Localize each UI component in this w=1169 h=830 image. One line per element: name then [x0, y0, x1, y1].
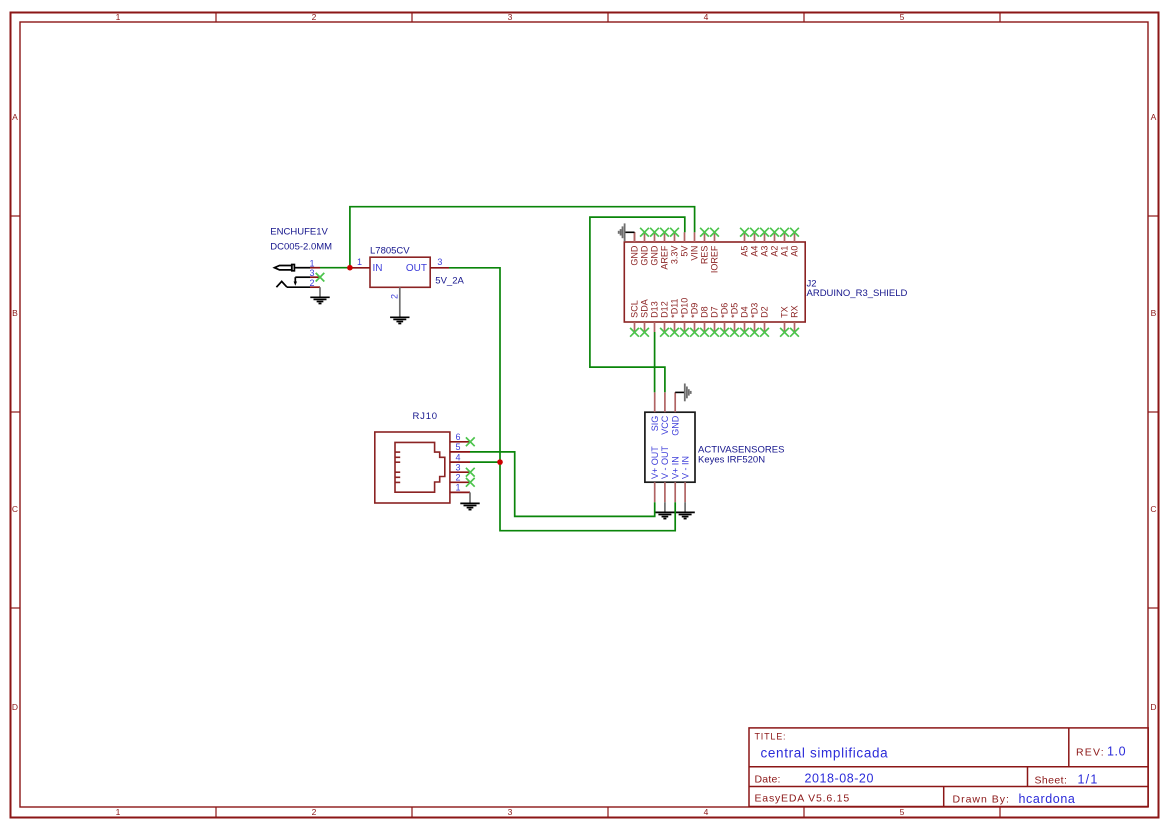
ground flag at J2 GND pin [619, 223, 635, 242]
J2 top pin AREF [660, 228, 670, 270]
svg-text:central simplificada: central simplificada [761, 746, 889, 761]
svg-text:RX: RX [790, 305, 800, 318]
wire RJ10 pin4 to junction [470, 461, 500, 463]
svg-text:D2: D2 [760, 306, 770, 318]
svg-text:A5: A5 [740, 246, 750, 257]
svg-text:hcardona: hcardona [1019, 792, 1076, 806]
svg-text:A: A [12, 112, 18, 122]
svg-text:1: 1 [116, 807, 121, 817]
svg-text:1: 1 [455, 483, 460, 493]
svg-text:AREF: AREF [660, 245, 670, 270]
U2 top pin GND [670, 392, 680, 435]
RJ10 pin 3 [450, 463, 475, 477]
svg-text:*D9: *D9 [690, 303, 700, 318]
P1 pin 3 no-connect [309, 268, 324, 282]
J2 top pin A0 [790, 228, 800, 257]
svg-text:IN: IN [373, 263, 383, 274]
J2 top pin A2 [770, 228, 780, 257]
ground at RJ10 pin 1 [460, 492, 479, 509]
svg-text:OUT: OUT [406, 263, 427, 274]
label J2 ARDUINO_R3_SHIELD [807, 279, 908, 300]
svg-text:D8: D8 [700, 306, 710, 318]
svg-text:2: 2 [309, 278, 314, 288]
svg-text:2: 2 [390, 294, 400, 299]
J2 bottom pin *D11 [670, 298, 680, 336]
svg-text:D: D [1150, 702, 1156, 712]
svg-text:5: 5 [900, 12, 905, 22]
J2 top pin VIN [690, 232, 700, 260]
svg-text:5: 5 [455, 442, 460, 452]
svg-text:3: 3 [309, 268, 314, 278]
J2 bottom pin *D6 [720, 303, 730, 337]
J2 bottom pin SDA [640, 299, 650, 336]
svg-text:*D6: *D6 [720, 303, 730, 318]
svg-text:IOREF: IOREF [710, 245, 720, 273]
svg-text:V+ IN: V+ IN [670, 456, 680, 479]
svg-text:B: B [12, 308, 18, 318]
J2 bottom pin D12 [660, 301, 670, 336]
svg-text:L7805CV: L7805CV [370, 246, 410, 257]
J2 bottom pin D2 [760, 306, 770, 336]
svg-text:A2: A2 [770, 246, 780, 257]
junction at RJ10 pin4 net [497, 459, 503, 465]
svg-text:VCC: VCC [660, 415, 670, 435]
RJ10 pin 2 [450, 473, 475, 487]
svg-text:1: 1 [309, 259, 314, 269]
ground at U1 pin 2 [390, 316, 409, 324]
J2 top pin GND [650, 228, 660, 266]
svg-text:REV:: REV: [1076, 747, 1105, 759]
U2 bottom pin V - OUT [660, 445, 670, 502]
svg-text:Drawn By:: Drawn By: [953, 794, 1010, 806]
J2 top pin RES [700, 228, 710, 264]
svg-text:SDA: SDA [640, 299, 650, 318]
svg-text:4: 4 [704, 12, 709, 22]
svg-text:2: 2 [455, 473, 460, 483]
U1 pin 1 IN [351, 257, 370, 268]
svg-text:GND: GND [640, 245, 650, 266]
svg-text:2018-08-20: 2018-08-20 [805, 772, 874, 786]
J2 top pin 5V [680, 232, 690, 256]
wire J2 5V to U2 VCC [590, 217, 685, 392]
ground at U2 V - OUT pin [655, 502, 674, 518]
U2 top pin SIG [650, 392, 660, 431]
svg-text:4: 4 [704, 807, 709, 817]
svg-text:TX: TX [780, 306, 790, 318]
svg-text:A3: A3 [760, 246, 770, 257]
ground flag at U2 GND pin [675, 384, 691, 402]
arduino shield J2 body [624, 242, 805, 322]
U1 pin 2 [390, 287, 400, 316]
svg-text:D: D [12, 702, 18, 712]
svg-text:D12: D12 [660, 301, 670, 318]
svg-text:GND: GND [650, 245, 660, 266]
J2 top pin A1 [780, 228, 790, 257]
J2 top pin A4 [750, 228, 760, 257]
title block [749, 728, 1148, 807]
J2 bottom pin RX [790, 305, 800, 336]
svg-text:RES: RES [700, 246, 710, 265]
svg-text:A: A [1151, 112, 1157, 122]
svg-text:A4: A4 [750, 246, 760, 257]
RJ10 pin 6 [450, 432, 475, 446]
svg-text:B: B [1151, 308, 1157, 318]
svg-text:C: C [12, 504, 18, 514]
svg-text:1.0: 1.0 [1107, 745, 1126, 759]
J2 bottom pin *D9 [690, 303, 700, 337]
svg-text:C: C [1150, 504, 1156, 514]
J2 top pin GND [640, 228, 650, 266]
svg-text:1: 1 [357, 257, 362, 267]
svg-text:2: 2 [312, 12, 317, 22]
U2 top pin VCC [660, 392, 670, 434]
svg-text:RJ10: RJ10 [413, 411, 438, 422]
J2 bottom pin D4 [740, 306, 750, 336]
J2 top pin IOREF [710, 228, 720, 273]
svg-text:D4: D4 [740, 306, 750, 318]
P1 pin 2 [309, 278, 320, 288]
svg-text:6: 6 [455, 432, 460, 442]
RJ10 pin 5 [450, 442, 470, 452]
svg-text:V+ OUT: V+ OUT [650, 446, 660, 479]
svg-text:1/1: 1/1 [1078, 773, 1099, 787]
J2 top pin 3.3V [670, 228, 680, 264]
J2 top pin A3 [760, 228, 770, 257]
svg-text:DC005-2.0MM: DC005-2.0MM [270, 241, 332, 252]
U2 bottom pin V+ IN [670, 456, 680, 502]
svg-text:SCL: SCL [630, 300, 640, 318]
svg-text:*D11: *D11 [670, 298, 680, 317]
svg-text:4: 4 [455, 452, 460, 462]
module U2 ACTIVASENSORES Keyes IRF520N body [645, 412, 695, 482]
J2 bottom pin D8 [700, 306, 710, 336]
svg-text:*D10: *D10 [680, 298, 690, 318]
U2 bottom pin V - IN [680, 456, 690, 502]
svg-text:SIG: SIG [650, 416, 660, 432]
regulator U1 L7805CV body [370, 257, 430, 287]
svg-text:D7: D7 [710, 306, 720, 318]
svg-text:5: 5 [900, 807, 905, 817]
J2 bottom pin *D5 [730, 303, 740, 337]
svg-text:D13: D13 [650, 301, 660, 318]
svg-text:2: 2 [312, 807, 317, 817]
J2 bottom pin *D10 [680, 298, 690, 337]
svg-text:1: 1 [116, 12, 121, 22]
ground at U2 V - IN pin [675, 502, 694, 518]
svg-text:3: 3 [508, 12, 513, 22]
J2 bottom pin D7 [710, 306, 720, 336]
svg-text:*D5: *D5 [730, 303, 740, 318]
connector P1 ENCHUFE1V DC005-2.0MM barrel jack body [275, 265, 311, 288]
junction at P1 pin1 net [347, 265, 353, 271]
U2 bottom pin V+ OUT [650, 446, 660, 502]
wire junction up over to J2 VIN [350, 207, 695, 268]
J2 bottom pin TX [780, 306, 790, 336]
connector RJ10 body [375, 432, 450, 503]
wire J2 D13 to U2 SIG [654, 332, 656, 392]
svg-text:V - OUT: V - OUT [660, 445, 670, 479]
svg-text:5V_2A: 5V_2A [435, 275, 464, 286]
J2 bottom pin *D3 [750, 303, 760, 337]
RJ10 pin 4 [450, 452, 470, 462]
wire RJ10 pin5 to U2 V+ OUT [470, 452, 655, 517]
svg-text:GND: GND [670, 415, 680, 436]
svg-text:A0: A0 [790, 246, 800, 257]
svg-text:ENCHUFE1V: ENCHUFE1V [270, 227, 328, 238]
svg-text:ARDUINO_R3_SHIELD: ARDUINO_R3_SHIELD [807, 288, 908, 299]
svg-text:3: 3 [455, 463, 460, 473]
svg-text:5V: 5V [680, 246, 690, 257]
svg-text:V - IN: V - IN [680, 456, 690, 479]
svg-text:3: 3 [508, 807, 513, 817]
J2 bottom pin SCL [630, 300, 640, 336]
svg-text:Date:: Date: [755, 774, 781, 786]
J2 top pin A5 [740, 228, 750, 257]
wire P1 pin1 to junction and U1 IN [320, 267, 352, 269]
U1 pin 3 OUT [430, 257, 449, 268]
svg-text:TITLE:: TITLE: [755, 732, 787, 742]
svg-text:A1: A1 [780, 246, 790, 257]
svg-text:VIN: VIN [690, 246, 700, 261]
svg-text:EasyEDA V5.6.15: EasyEDA V5.6.15 [755, 793, 850, 805]
svg-text:GND: GND [630, 245, 640, 266]
svg-text:3: 3 [437, 257, 442, 267]
svg-text:Keyes IRF520N: Keyes IRF520N [698, 454, 765, 465]
ground at P1 pin 2 [310, 287, 329, 303]
wire U1 OUT down to U2 V+ IN [449, 268, 675, 531]
RJ10 pin 1 [450, 483, 470, 493]
svg-text:3.3V: 3.3V [670, 246, 680, 265]
P1 pin 1 [309, 259, 320, 269]
J2 top pin GND [630, 232, 640, 265]
svg-text:*D3: *D3 [750, 303, 760, 318]
svg-text:Sheet:: Sheet: [1035, 775, 1068, 787]
J2 bottom pin D13 [650, 301, 660, 332]
